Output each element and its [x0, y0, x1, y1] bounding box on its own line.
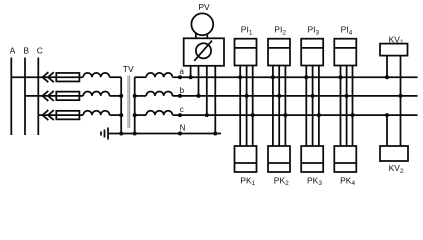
PI3 wire 3 junction — [317, 113, 321, 117]
relay KV2 box — [380, 146, 408, 161]
junction secondary bus b — [133, 94, 137, 98]
PI3 wire 2 — [312, 66, 314, 147]
PV terminal 2 junction — [197, 94, 201, 98]
shared wire junction on b — [399, 94, 403, 98]
KV2 left junction on c — [385, 113, 389, 117]
meter PI2 divider — [268, 47, 290, 49]
meter PI2 box — [268, 39, 290, 66]
wire phase c — [173, 114, 418, 116]
KV1 left terminal wire — [386, 56, 388, 78]
svg-text:A: A — [10, 46, 16, 56]
fuse phase C — [56, 111, 79, 120]
junction primary bus c — [119, 113, 123, 117]
KV1-KV2 shared wire — [400, 56, 402, 146]
wire neutral N — [108, 133, 221, 135]
PI2 wire 2 — [278, 66, 280, 147]
voltmeter neck right — [206, 33, 208, 38]
relay PK3 box — [301, 146, 323, 172]
PI3 wire 3 — [318, 66, 320, 147]
svg-text:N: N — [180, 124, 186, 133]
chevron connector phase C — [43, 110, 54, 120]
primary winding coil phase B — [83, 92, 109, 96]
svg-text:b: b — [180, 86, 185, 95]
svg-text:KV2: KV2 — [389, 163, 404, 175]
meter PI4 box — [334, 39, 356, 66]
PV terminal wire 2 — [198, 66, 200, 96]
svg-text:a: a — [179, 67, 184, 76]
relay PK2 divider — [268, 162, 290, 164]
PI2 wire 3 junction — [283, 113, 287, 117]
relay PK3 divider — [301, 162, 323, 164]
primary star-point bus wire — [120, 77, 122, 133]
PV terminal 1 junction — [189, 75, 193, 79]
svg-text:PI4: PI4 — [341, 25, 353, 37]
svg-text:PK2: PK2 — [274, 175, 289, 187]
PV terminal 3 junction — [205, 113, 209, 117]
svg-text:PK1: PK1 — [240, 175, 255, 187]
PI4 wire 3 — [352, 66, 354, 147]
secondary winding coil a — [146, 73, 172, 77]
svg-text:PI1: PI1 — [241, 25, 253, 37]
junction secondary bus N — [133, 132, 137, 136]
relay PK1 box — [235, 146, 257, 172]
PI3 wire 1 — [305, 66, 307, 147]
PI1 wire 2 junction — [245, 94, 249, 98]
chevron connector phase B — [43, 91, 54, 101]
junction secondary bus c — [133, 113, 137, 117]
svg-text:PI3: PI3 — [308, 25, 320, 37]
relay PK4 divider — [334, 162, 356, 164]
secondary winding coil c — [146, 111, 172, 115]
PV terminal wire 3 — [206, 66, 208, 115]
PI4 wire 2 junction — [345, 94, 349, 98]
meter PI4 divider — [334, 47, 356, 49]
svg-text:c: c — [180, 105, 184, 114]
PI3 wire 1 junction — [304, 75, 308, 79]
wire phase a — [173, 76, 418, 78]
svg-text:PK3: PK3 — [307, 175, 322, 187]
PI1 wire 3 — [252, 66, 254, 147]
relay PK2 box — [268, 146, 290, 172]
relay PK4 box — [334, 146, 356, 172]
PV terminal wire 4 — [214, 66, 216, 134]
relay PK1 divider — [235, 162, 257, 164]
secondary winding coil b — [146, 92, 172, 96]
PI4 wire 1 junction — [339, 75, 343, 79]
meter PI3 divider — [301, 47, 323, 49]
primary winding coil phase C — [83, 111, 109, 115]
voltmeter PV circle — [191, 13, 213, 35]
fuse phase B — [56, 92, 79, 101]
PI2 wire 1 junction — [271, 75, 275, 79]
junction primary bus b — [119, 94, 123, 98]
svg-text:PV: PV — [198, 2, 210, 12]
transformer core line 1 — [127, 76, 129, 129]
node N dot — [178, 132, 182, 136]
PI1 wire 1 — [239, 66, 241, 147]
PI2 wire 2 junction — [277, 94, 281, 98]
wire coil B to primary bus — [110, 95, 122, 97]
chevron connector phase A — [43, 72, 54, 82]
node b dot — [178, 94, 182, 98]
wire branch phase C — [38, 114, 83, 116]
node a dot — [178, 75, 182, 79]
PI4 wire 2 — [346, 66, 348, 147]
PI4 wire 1 — [340, 66, 342, 147]
wire secondary bus to coil c — [135, 114, 147, 116]
PI1 wire 3 junction — [251, 113, 255, 117]
svg-text:PK4: PK4 — [340, 175, 355, 187]
svg-text:TV: TV — [123, 64, 134, 74]
wire coil C to primary bus — [110, 114, 122, 116]
KV1 left junction on a — [385, 75, 389, 79]
secondary star-point bus wire — [134, 77, 136, 133]
relay KV1 box — [380, 44, 408, 56]
ground — [101, 128, 108, 140]
node c dot — [178, 113, 182, 117]
fuse phase A — [56, 73, 79, 82]
wire secondary bus to coil a — [135, 76, 147, 78]
svg-text:PI2: PI2 — [274, 25, 286, 37]
transformer core line 2 — [129, 76, 131, 129]
PI4 wire 3 junction — [351, 113, 355, 117]
svg-text:B: B — [23, 46, 29, 56]
meter PI3 box — [301, 39, 323, 66]
svg-text:C: C — [37, 46, 43, 56]
phase selector circle — [196, 43, 211, 58]
primary winding coil phase A — [83, 73, 109, 77]
wire coil A to primary bus — [110, 76, 122, 78]
voltmeter neck left — [195, 33, 197, 38]
phase selector switch box — [184, 38, 224, 66]
PV terminal 4 junction — [213, 132, 217, 136]
meter PI1 box — [235, 39, 257, 66]
wire phase b — [173, 95, 418, 97]
phase selector slash — [194, 41, 212, 61]
PI3 wire 2 junction — [311, 94, 315, 98]
busbar B — [24, 58, 26, 136]
busbar C — [37, 58, 39, 136]
wire secondary bus to coil b — [135, 95, 147, 97]
busbar A — [10, 58, 12, 136]
PV terminal wire 1 — [190, 66, 192, 77]
PI1 wire 2 — [246, 66, 248, 147]
junction primary bus N — [119, 132, 123, 136]
KV2 left terminal wire — [386, 115, 388, 146]
wire branch phase B — [25, 95, 83, 97]
PI2 wire 1 — [272, 66, 274, 147]
wire branch phase A — [11, 76, 83, 78]
PI1 wire 1 junction — [238, 75, 242, 79]
meter PI1 divider — [235, 47, 257, 49]
PI2 wire 3 — [284, 66, 286, 147]
